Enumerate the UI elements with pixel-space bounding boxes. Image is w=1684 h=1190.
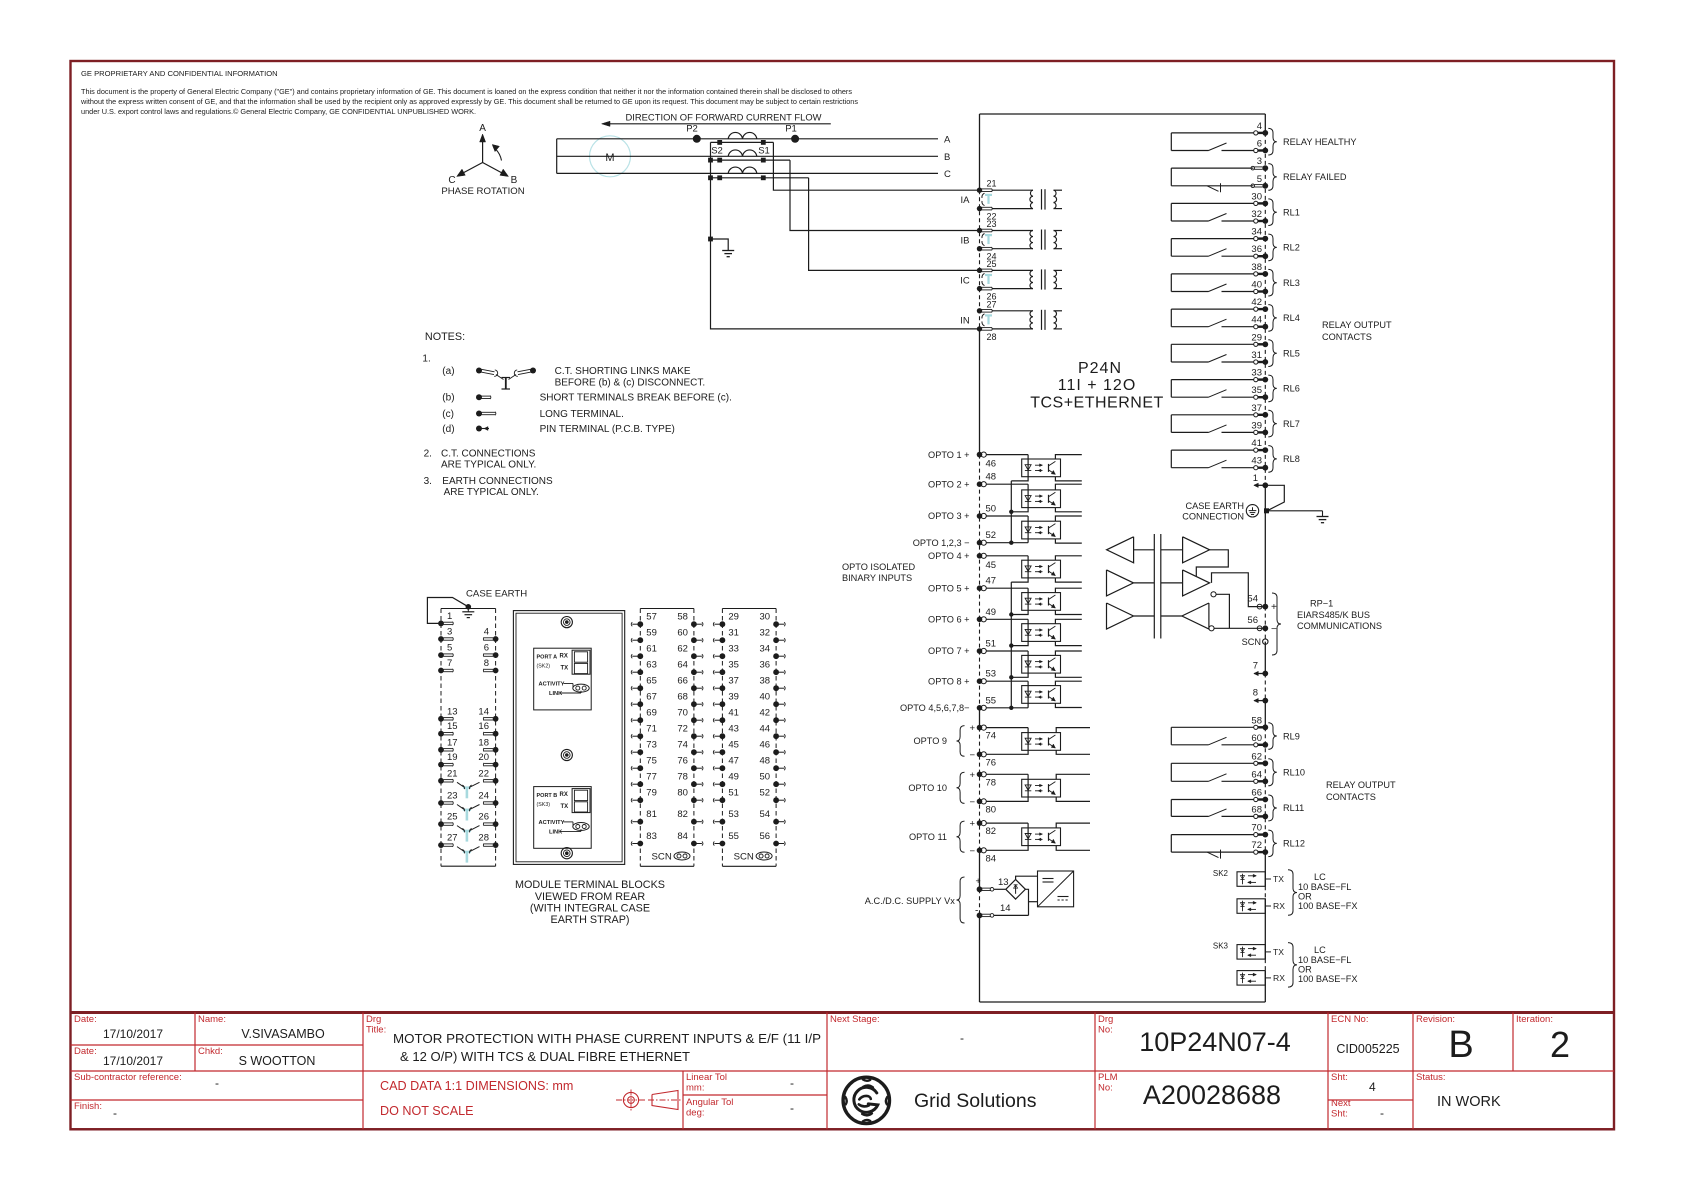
svg-text:Iteration:: Iteration: xyxy=(1516,1014,1553,1025)
SK3 TX fibre port xyxy=(1237,945,1265,960)
svg-text:M: M xyxy=(605,152,614,164)
terminal 50 (OPTO 3 +) xyxy=(977,513,983,519)
svg-text:6: 6 xyxy=(1257,139,1262,150)
svg-text:CONNECTION: CONNECTION xyxy=(1182,512,1244,522)
svg-text:(a): (a) xyxy=(442,366,454,377)
block terminal 44 xyxy=(773,733,779,739)
svg-text:33: 33 xyxy=(1251,368,1262,379)
svg-text:TX: TX xyxy=(561,666,569,672)
svg-text:Date:: Date: xyxy=(74,1014,97,1025)
svg-text:SHORT TERMINALS BREAK BEFORE (: SHORT TERMINALS BREAK BEFORE (c). xyxy=(540,393,732,404)
opto group 2 cathode bus xyxy=(1010,582,1012,708)
svg-text:44: 44 xyxy=(760,724,771,735)
panel screw xyxy=(561,848,572,859)
svg-text:RELAY FAILED: RELAY FAILED xyxy=(1283,172,1347,182)
relay contact RL2 xyxy=(1170,239,1172,257)
svg-text:62: 62 xyxy=(1251,751,1262,762)
dc-dc converter xyxy=(1038,871,1074,907)
terminal 68 xyxy=(1254,814,1258,818)
svg-text:-: - xyxy=(113,1106,117,1120)
svg-text:BEFORE (b) & (c) DISCONNECT.: BEFORE (b) & (c) DISCONNECT. xyxy=(555,378,706,389)
svg-text:25: 25 xyxy=(987,259,997,269)
svg-text:45: 45 xyxy=(728,740,739,751)
opto 5 output wires xyxy=(1055,588,1081,592)
wire terminal 52 common negative xyxy=(986,542,1028,544)
svg-text:30: 30 xyxy=(1251,191,1262,202)
svg-text:A: A xyxy=(944,134,951,145)
block1 CT shorting link 27/28 xyxy=(463,851,471,853)
svg-text:66: 66 xyxy=(1251,788,1262,799)
CT B secondary xyxy=(711,159,791,161)
terminal 46 (OPTO 1 +) xyxy=(977,452,983,458)
block terminal 70 xyxy=(691,717,697,723)
relay contact RL5 xyxy=(1170,344,1172,362)
title block bottom/right heavy edges xyxy=(71,1128,1615,1130)
terminal 36 xyxy=(1254,254,1258,258)
input transformer IB xyxy=(993,230,1034,232)
block terminal 43 xyxy=(720,733,726,739)
opto-coupler OPTO 3 xyxy=(1022,521,1061,539)
svg-text:83: 83 xyxy=(646,831,657,842)
svg-text:OPTO 6 +: OPTO 6 + xyxy=(928,615,969,625)
svg-text:C: C xyxy=(448,175,455,186)
svg-text:47: 47 xyxy=(986,576,997,587)
svg-text:RELAY HEALTHY: RELAY HEALTHY xyxy=(1283,137,1357,147)
block1 terminal 26 xyxy=(493,821,499,827)
block terminal 66 xyxy=(691,685,697,691)
terminal 80 (OPTO 10 -) xyxy=(977,799,983,805)
wire terminal 1 to case earth stud xyxy=(1265,485,1284,511)
terminal 51 (OPTO 7 +) xyxy=(977,648,983,654)
svg-text:IC: IC xyxy=(960,276,970,287)
svg-text:31: 31 xyxy=(728,628,739,639)
block terminal 73 xyxy=(637,749,643,755)
brace RL5 xyxy=(1268,340,1277,367)
svg-text:RL4: RL4 xyxy=(1283,313,1300,323)
CT shorting link 21/22 xyxy=(985,194,992,196)
SK3 brace and labels xyxy=(1288,943,1297,988)
svg-text:71: 71 xyxy=(646,724,657,735)
svg-text:OPTO ISOLATED: OPTO ISOLATED xyxy=(842,562,916,572)
svg-text:MODULE TERMINAL BLOCKS: MODULE TERMINAL BLOCKS xyxy=(515,879,665,891)
terminal 48 (OPTO 2 +) xyxy=(977,481,983,487)
svg-text:4: 4 xyxy=(1369,1080,1376,1094)
svg-text:67: 67 xyxy=(646,692,657,703)
RS485 buffer row 1 (right tx triangle) xyxy=(1183,537,1210,563)
svg-text:69: 69 xyxy=(646,708,657,719)
opto-coupler OPTO 7 xyxy=(1022,655,1061,673)
svg-text:72: 72 xyxy=(677,724,688,735)
block terminal 65 xyxy=(637,685,643,691)
svg-text:3: 3 xyxy=(447,627,452,638)
CT shorting link 23/24 xyxy=(985,234,992,236)
brace RL10 xyxy=(1268,759,1277,786)
svg-text:CASE EARTH: CASE EARTH xyxy=(466,589,527,600)
svg-text:70: 70 xyxy=(1251,823,1262,834)
svg-text:-: - xyxy=(960,1031,964,1045)
svg-text:63: 63 xyxy=(646,660,657,671)
terminal 24 (CT input) xyxy=(977,246,982,251)
block1 terminal 28 xyxy=(493,842,499,848)
svg-text:33: 33 xyxy=(728,644,739,655)
terminal 7 xyxy=(1254,673,1263,675)
svg-text:23: 23 xyxy=(987,219,997,229)
terminal 30 xyxy=(1254,201,1258,205)
svg-text:19: 19 xyxy=(447,752,458,763)
brace RL2 xyxy=(1268,234,1277,261)
svg-text:OPTO 1,2,3 −: OPTO 1,2,3 − xyxy=(913,538,970,548)
svg-text:Drg: Drg xyxy=(1098,1014,1113,1025)
svg-text:48: 48 xyxy=(986,472,997,483)
RP-1 communications brace xyxy=(1272,593,1281,655)
block terminal 33 xyxy=(720,653,726,659)
svg-text:OPTO 9: OPTO 9 xyxy=(913,736,947,746)
block terminal 57 xyxy=(637,621,643,627)
terminal 37 xyxy=(1254,413,1258,417)
svg-text:50: 50 xyxy=(986,504,997,515)
svg-text:OPTO 2 +: OPTO 2 + xyxy=(928,479,969,489)
terminal 27 (CT input) xyxy=(977,308,982,313)
block terminal 78 xyxy=(691,781,697,787)
terminal 82 (OPTO 11 +) xyxy=(977,820,983,826)
svg-text:24: 24 xyxy=(478,791,489,802)
earth branch node xyxy=(708,237,713,242)
RS485 buffer row 3 (left tx triangle) xyxy=(1107,603,1134,629)
svg-text:42: 42 xyxy=(1251,297,1262,308)
block terminal 81 xyxy=(637,819,643,825)
svg-text:-: - xyxy=(215,1076,219,1090)
RS485 isolation barrier xyxy=(1153,534,1155,639)
block terminal 61 xyxy=(637,653,643,659)
svg-text:Sht:: Sht: xyxy=(1331,1072,1348,1083)
svg-text:41: 41 xyxy=(728,708,739,719)
relay contact RL12 xyxy=(1170,835,1172,853)
RS485 row2 enable route xyxy=(1216,594,1229,628)
terminal 74 (OPTO 9 +) xyxy=(977,725,983,731)
svg-text:15: 15 xyxy=(447,721,458,732)
svg-text:RL7: RL7 xyxy=(1283,419,1300,429)
block terminal 50 xyxy=(773,781,779,787)
svg-text:34: 34 xyxy=(760,644,771,655)
terminal 41 xyxy=(1254,448,1258,452)
svg-text:SCN: SCN xyxy=(1242,637,1261,647)
block1 terminal 7 xyxy=(438,668,444,674)
brace RL6 xyxy=(1268,375,1277,402)
terminal 35 xyxy=(1254,395,1258,399)
block1 terminal 6 xyxy=(493,652,499,658)
svg-text:1.: 1. xyxy=(422,354,430,365)
svg-text:75: 75 xyxy=(646,756,657,767)
terminal 54 xyxy=(1262,604,1268,610)
relay contact RL3 xyxy=(1170,274,1172,292)
svg-text:58: 58 xyxy=(1251,715,1262,726)
svg-text:P24N: P24N xyxy=(1078,360,1122,377)
block1 terminal 1 xyxy=(438,621,444,627)
svg-text:68: 68 xyxy=(677,692,688,703)
svg-text:84: 84 xyxy=(986,853,997,864)
motor M circle xyxy=(590,136,631,177)
svg-text:OPTO 8 +: OPTO 8 + xyxy=(928,676,969,686)
block terminal 37 xyxy=(720,685,726,691)
opto 7 output wires xyxy=(1055,651,1081,655)
svg-text:IA: IA xyxy=(961,195,971,206)
SK2 brace and labels xyxy=(1288,870,1297,916)
opto-coupler OPTO 9 xyxy=(1022,733,1061,751)
case earth symbol on block xyxy=(466,604,472,610)
terminal 33 xyxy=(1254,378,1258,382)
block terminal 40 xyxy=(773,701,779,707)
PORT B (SK3) panel xyxy=(534,787,592,849)
svg-text:10 BASE−FL: 10 BASE−FL xyxy=(1298,882,1351,892)
svg-text:76: 76 xyxy=(986,757,997,768)
svg-text:OPTO 5 +: OPTO 5 + xyxy=(928,583,969,593)
block terminal 48 xyxy=(773,765,779,771)
block terminal 80 xyxy=(691,797,697,803)
CT shorting link 27/28 xyxy=(985,314,992,316)
svg-text:EIARS485/K BUS: EIARS485/K BUS xyxy=(1297,610,1370,620)
panel screw xyxy=(561,749,572,760)
opto-coupler OPTO 11 xyxy=(1022,828,1061,846)
svg-text:−: − xyxy=(969,750,975,761)
svg-text:C.T. SHORTING LINKS MAKE: C.T. SHORTING LINKS MAKE xyxy=(555,366,691,377)
svg-text:11I + 12O: 11I + 12O xyxy=(1058,377,1137,394)
svg-text:4: 4 xyxy=(484,627,489,638)
svg-text:77: 77 xyxy=(646,772,657,783)
brace RL12 xyxy=(1268,830,1277,857)
svg-text:44: 44 xyxy=(1251,315,1262,326)
svg-text:P1: P1 xyxy=(785,124,797,135)
CT C secondary xyxy=(711,177,809,179)
RS485 route to terminal 56 xyxy=(1214,627,1262,629)
relay contact RL8 xyxy=(1170,450,1172,468)
svg-text:42: 42 xyxy=(760,708,771,719)
terminal 40 xyxy=(1254,289,1258,293)
svg-text:10 BASE−FL: 10 BASE−FL xyxy=(1298,955,1351,965)
terminal 38 xyxy=(1254,272,1258,276)
relay contact RL6 xyxy=(1170,380,1172,398)
block terminal 47 xyxy=(720,765,726,771)
block terminal 72 xyxy=(691,733,697,739)
block terminal 38 xyxy=(773,685,779,691)
opto-coupler OPTO 4 xyxy=(1022,560,1061,578)
svg-text:−: − xyxy=(969,846,975,857)
block terminal 34 xyxy=(773,653,779,659)
svg-text:RL6: RL6 xyxy=(1283,384,1300,394)
block1 terminal 23 xyxy=(438,800,444,806)
opto group 1 cathode bus xyxy=(1010,481,1012,543)
svg-text:RX: RX xyxy=(560,654,568,660)
input transformer IA xyxy=(993,189,1034,191)
block terminal 62 xyxy=(691,653,697,659)
svg-text:54: 54 xyxy=(760,809,771,820)
opto-coupler OPTO 2 xyxy=(1022,490,1061,508)
terminal 21 (CT input) xyxy=(977,188,982,193)
wire CT C S1 to terminal 25 xyxy=(809,178,977,271)
svg-text:Date:: Date: xyxy=(74,1046,97,1057)
block terminal 29 xyxy=(720,621,726,627)
svg-text:+: + xyxy=(969,770,975,781)
terminal 14 xyxy=(977,913,983,919)
svg-text:RELAY OUTPUT: RELAY OUTPUT xyxy=(1322,320,1392,330)
svg-text:56: 56 xyxy=(1247,615,1258,626)
svg-text:74: 74 xyxy=(677,740,688,751)
opto 11 output wires xyxy=(1056,823,1090,828)
panel screw xyxy=(561,617,572,628)
svg-text:29: 29 xyxy=(728,612,739,623)
svg-text:32: 32 xyxy=(760,628,771,639)
svg-text:PORT B: PORT B xyxy=(537,793,558,799)
svg-text:PORT A: PORT A xyxy=(537,655,558,661)
block terminal 39 xyxy=(720,701,726,707)
svg-text:under U.S. export control laws: under U.S. export control laws and regul… xyxy=(81,107,476,116)
svg-text:RL8: RL8 xyxy=(1283,454,1300,464)
svg-text:29: 29 xyxy=(1251,332,1262,343)
wire terminal 55 common negative xyxy=(986,707,1028,709)
block terminal 35 xyxy=(720,669,726,675)
svg-text:27: 27 xyxy=(447,833,458,844)
svg-text:3.: 3. xyxy=(424,476,432,487)
case earth stud xyxy=(1264,508,1269,513)
input transformer IN xyxy=(993,310,1034,312)
svg-text:ARE TYPICAL ONLY.: ARE TYPICAL ONLY. xyxy=(441,460,536,471)
svg-text:1: 1 xyxy=(447,611,452,622)
svg-text:OR: OR xyxy=(1298,964,1312,974)
svg-text:RL1: RL1 xyxy=(1283,208,1300,218)
block terminal 84 xyxy=(691,841,697,847)
svg-text:Name:: Name: xyxy=(198,1014,226,1025)
svg-text:31: 31 xyxy=(1251,350,1262,361)
svg-text:52: 52 xyxy=(986,530,997,541)
svg-text:51: 51 xyxy=(728,788,739,799)
svg-text:PIN TERMINAL (P.C.B. TYPE): PIN TERMINAL (P.C.B. TYPE) xyxy=(540,424,675,435)
svg-text:MOTOR PROTECTION WITH PHASE CU: MOTOR PROTECTION WITH PHASE CURRENT INPU… xyxy=(393,1032,821,1046)
svg-text:without the express written co: without the express written consent of G… xyxy=(80,97,858,106)
svg-text:V.SIVASAMBO: V.SIVASAMBO xyxy=(241,1027,325,1041)
title block grid lines xyxy=(71,1044,364,1046)
CT shorting link 25/26 xyxy=(985,274,992,276)
terminal 76 (OPTO 9 -) xyxy=(977,752,983,758)
block1 terminal 13 xyxy=(438,716,444,722)
svg-text:17/10/2017: 17/10/2017 xyxy=(103,1027,163,1041)
svg-text:Finish:: Finish: xyxy=(74,1101,102,1112)
terminal 70 xyxy=(1254,833,1258,837)
svg-text:No:: No: xyxy=(1098,1083,1113,1094)
terminal 53 (OPTO 8 +) xyxy=(977,678,983,684)
svg-text:IN: IN xyxy=(960,316,970,327)
phase line A xyxy=(557,138,938,140)
earth symbol at CT star point xyxy=(711,239,729,251)
svg-text:B: B xyxy=(1448,1024,1473,1066)
block terminal 82 xyxy=(691,819,697,825)
case earth symbol circle xyxy=(1246,505,1258,517)
block1 terminal 27 xyxy=(438,842,444,848)
svg-text:Angular Tol: Angular Tol xyxy=(686,1097,733,1108)
opto 9 output wires xyxy=(1056,728,1090,733)
svg-text:−: − xyxy=(1271,624,1277,635)
terminal 84 (OPTO 11 -) xyxy=(977,848,983,854)
svg-text:RL10: RL10 xyxy=(1283,768,1305,778)
RS485 buffer row 2 (right triangle) xyxy=(1183,570,1210,596)
PORT A (SK2) panel xyxy=(534,648,592,710)
svg-text:28: 28 xyxy=(478,833,489,844)
svg-text:84: 84 xyxy=(677,831,688,842)
block terminal 69 xyxy=(637,717,643,723)
svg-text:RL9: RL9 xyxy=(1283,731,1300,741)
relay case outline P24N xyxy=(980,113,1266,115)
svg-text:40: 40 xyxy=(1251,280,1262,291)
common S2 earth wire to terminal 28 xyxy=(711,142,978,329)
svg-text:SCN: SCN xyxy=(734,852,754,863)
svg-text:ARE TYPICAL ONLY.: ARE TYPICAL ONLY. xyxy=(444,487,539,498)
svg-text:ACTIVITY: ACTIVITY xyxy=(539,820,565,826)
SK2 TX fibre port xyxy=(1237,872,1265,887)
svg-text:-: - xyxy=(790,1076,794,1090)
block1 terminal 3 xyxy=(438,636,444,642)
relay contact RL10 xyxy=(1170,763,1172,781)
terminal 43 xyxy=(1254,466,1258,470)
svg-text:34: 34 xyxy=(1251,227,1262,238)
svg-text:GE PROPRIETARY AND CONFIDENTIA: GE PROPRIETARY AND CONFIDENTIAL INFORMAT… xyxy=(81,69,278,78)
block1 terminal 15 xyxy=(438,731,444,737)
svg-text:70: 70 xyxy=(677,708,688,719)
svg-text:41: 41 xyxy=(1251,438,1262,449)
svg-text:58: 58 xyxy=(677,612,688,623)
svg-text:30: 30 xyxy=(760,612,771,623)
svg-text:81: 81 xyxy=(646,809,657,820)
svg-text:43: 43 xyxy=(1251,456,1262,467)
svg-text:35: 35 xyxy=(1251,385,1262,396)
svg-text:NOTES:: NOTES: xyxy=(425,331,465,343)
terminal 66 xyxy=(1254,797,1258,801)
svg-text:+: + xyxy=(969,819,975,830)
terminal 60 xyxy=(1254,743,1258,747)
svg-text:32: 32 xyxy=(1251,209,1262,220)
block terminal 79 xyxy=(637,797,643,803)
block terminal 67 xyxy=(637,701,643,707)
svg-text:14: 14 xyxy=(1000,903,1011,914)
terminal 4 xyxy=(1254,131,1258,135)
svg-text:RL11: RL11 xyxy=(1283,803,1304,813)
svg-text:55: 55 xyxy=(728,831,739,842)
block1 terminal 5 xyxy=(438,652,444,658)
block terminal 32 xyxy=(773,637,779,643)
CT polarity dot P2 xyxy=(693,135,701,143)
svg-text:OPTO 1 +: OPTO 1 + xyxy=(928,450,969,460)
block1 terminal 14 xyxy=(493,716,499,722)
wire case earth to external ground xyxy=(1269,510,1323,512)
terminal 23 (CT input) xyxy=(977,228,982,233)
svg-text:Next: Next xyxy=(1331,1098,1351,1109)
terminal 78 (OPTO 10 +) xyxy=(977,772,983,778)
wire 13 to rectifier xyxy=(994,888,1006,890)
svg-text:OPTO 4,5,6,7,8−: OPTO 4,5,6,7,8− xyxy=(900,703,970,713)
block terminal 46 xyxy=(773,749,779,755)
CT B primary winding xyxy=(728,150,742,156)
svg-text:53: 53 xyxy=(728,809,739,820)
svg-text:36: 36 xyxy=(1251,244,1262,255)
block terminal 45 xyxy=(720,749,726,755)
block1 terminal 19 xyxy=(438,762,444,768)
svg-text:65: 65 xyxy=(646,676,657,687)
svg-text:18: 18 xyxy=(478,737,489,748)
svg-text:20: 20 xyxy=(478,752,489,763)
brace RL3 xyxy=(1268,269,1277,296)
brace RL4 xyxy=(1268,305,1277,332)
module block 2 panel outline xyxy=(513,611,624,865)
terminal 25 (CT input) xyxy=(977,268,982,273)
svg-text:PLM: PLM xyxy=(1098,1072,1118,1083)
terminal SCN xyxy=(1263,639,1268,644)
